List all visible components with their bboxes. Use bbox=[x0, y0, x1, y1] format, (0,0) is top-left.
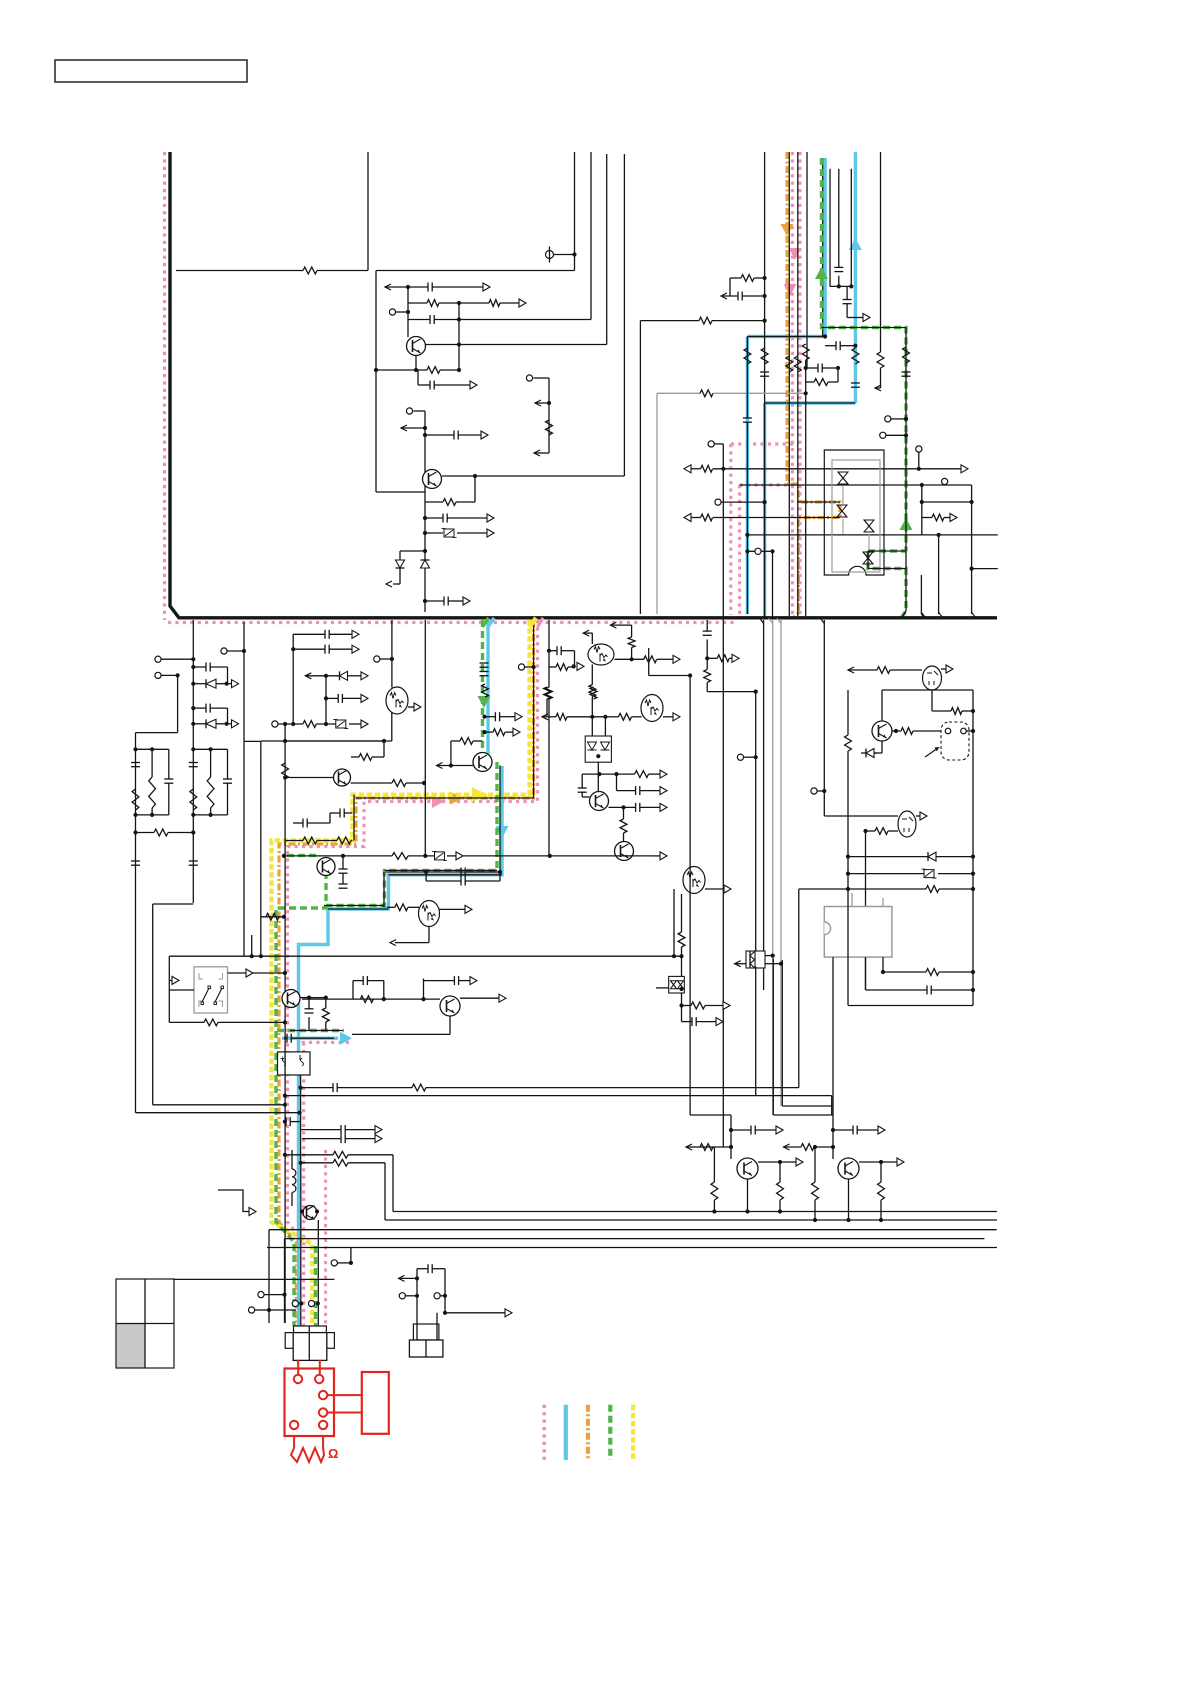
long row y485 bbox=[740, 484, 972, 486]
opto oval 2 bbox=[823, 791, 825, 816]
signal path blue lower branch bbox=[282, 1036, 338, 1039]
gray vertical x772 bbox=[772, 620, 774, 1115]
cap on blue branch y1038 bbox=[284, 1037, 287, 1039]
cap rows near Q7 bbox=[339, 809, 341, 818]
row y1021 bbox=[682, 1021, 693, 1023]
dtr Q6 center bbox=[386, 687, 408, 714]
signal path pink jog B bbox=[740, 483, 791, 486]
varistor row y873 bbox=[848, 873, 924, 875]
right loop top bbox=[882, 689, 973, 691]
red box bbox=[285, 1369, 335, 1437]
cell1 transistor Q13 bbox=[737, 1158, 758, 1179]
long vertical x285 bbox=[284, 724, 286, 1022]
signal path orange center route bbox=[279, 620, 534, 1326]
row resistor R row2 bbox=[408, 302, 427, 304]
long line y1220 bbox=[385, 1219, 997, 1221]
row y551 terminals bbox=[745, 549, 749, 553]
signal path pink center route bbox=[288, 620, 538, 1242]
resistor row y972 bbox=[883, 971, 926, 973]
left RC cluster 2 bbox=[193, 748, 227, 750]
x592 resistor chain bbox=[591, 664, 593, 684]
black diag x906 bbox=[902, 611, 906, 617]
bottom row y1005 bbox=[848, 1005, 973, 1007]
IC bottom wiring bbox=[832, 957, 834, 1130]
row capacitor row4 bbox=[408, 319, 430, 321]
surge block outline bbox=[824, 450, 884, 575]
green Z black wires bbox=[868, 550, 906, 552]
wire y889 left bbox=[799, 888, 848, 890]
small diode box B2 bbox=[669, 976, 685, 993]
cap row y990 bbox=[866, 989, 928, 991]
resistor v906 on green bbox=[905, 328, 907, 612]
ladder row diode y723 bbox=[191, 722, 195, 726]
surge bowtie 2 bbox=[837, 505, 847, 517]
wire blue row y403 bbox=[765, 402, 856, 404]
signal path pink top-right pair bbox=[791, 152, 794, 617]
legend yellow sample bbox=[631, 1405, 635, 1460]
relay left wires bbox=[168, 956, 170, 1022]
transistor Q12 bbox=[872, 721, 892, 741]
vertical x707 chain bbox=[706, 620, 708, 631]
legend green sample bbox=[608, 1405, 612, 1460]
row capacitor y435 bbox=[425, 434, 454, 436]
terminal x882 bbox=[880, 432, 886, 438]
line L1 y320 bbox=[639, 321, 641, 614]
opto oval 1 bbox=[923, 666, 942, 690]
row capacitor y385 bbox=[417, 370, 419, 385]
terminal row3 bbox=[389, 309, 395, 315]
terminal x740 bbox=[737, 754, 743, 760]
wire vertical x830 bbox=[829, 169, 831, 287]
wire vertical x880 bbox=[880, 152, 882, 352]
cell2 resistors bbox=[814, 1147, 816, 1182]
wire vertical x368 bbox=[367, 152, 369, 271]
bundle transistor Q11 bbox=[303, 1206, 317, 1220]
terminal x887 bbox=[885, 416, 891, 422]
oval dtr x429 bbox=[387, 906, 395, 908]
vertical x177 bbox=[177, 675, 179, 732]
vertical x971 to bus bbox=[971, 485, 973, 614]
main thick bus line bbox=[170, 152, 997, 618]
signal path pink lower branch bbox=[302, 1041, 350, 1044]
bus corner diagonals below bbox=[760, 618, 764, 623]
row y517 left bbox=[684, 514, 691, 522]
wire vertical x591 bbox=[590, 152, 592, 320]
signal path pink right pair bottom bbox=[324, 1150, 327, 1326]
dtr Q5 bbox=[683, 867, 705, 894]
svg-text:Ω: Ω bbox=[328, 1446, 338, 1461]
terminals on bundle bbox=[292, 1300, 298, 1306]
Q5 left leg bbox=[673, 889, 675, 956]
resistor v747 bbox=[744, 348, 751, 364]
colored bus entry diagonals bbox=[530, 618, 537, 627]
wire vertical x459 bbox=[458, 303, 460, 370]
resistor x623 bbox=[623, 807, 625, 819]
relay box bbox=[194, 967, 228, 1013]
cell2 transistor Q14 bbox=[838, 1158, 859, 1179]
capacitor row y368 bbox=[806, 367, 818, 369]
transistor Q4 bbox=[615, 842, 634, 861]
relay coil resistor bbox=[169, 1021, 204, 1023]
IC box bbox=[824, 907, 892, 958]
row resistor y502 bbox=[425, 501, 443, 503]
cell2 feed bbox=[772, 959, 774, 1116]
wire table to bundle y1279 bbox=[174, 1278, 334, 1280]
row y1005 bbox=[679, 1003, 683, 1007]
row y502 right bbox=[922, 501, 972, 503]
relay contacts bbox=[202, 988, 209, 1002]
row y716 green branch bbox=[482, 715, 486, 719]
capacitor y345 row bbox=[825, 345, 836, 347]
resistor v855 bbox=[852, 348, 859, 364]
chain x631 bbox=[631, 625, 633, 637]
connector CN2 bbox=[413, 1324, 439, 1340]
diode row y856 bbox=[848, 856, 928, 858]
transistor Q15 cluster bbox=[302, 998, 440, 1000]
bundle black wire x300 bbox=[300, 1075, 302, 1163]
arrow into bundle bbox=[218, 1190, 249, 1212]
signal path orange top-right bbox=[787, 152, 840, 618]
row y716 long bbox=[542, 714, 548, 720]
resistor row y831 bbox=[866, 830, 876, 832]
row y790 bbox=[616, 774, 618, 791]
wires above CN1 bbox=[300, 1163, 302, 1326]
wire blue row y336 bbox=[747, 336, 825, 338]
caps hanging at x343 bbox=[342, 856, 344, 869]
wire vertical x606 bbox=[606, 154, 608, 345]
red terminals bbox=[294, 1375, 302, 1383]
transistor Q3 bbox=[597, 762, 599, 791]
ladder row diode y683 bbox=[191, 682, 195, 686]
long line y1211 bbox=[393, 1211, 997, 1213]
resistor v848 bbox=[847, 690, 849, 735]
wire emitter Q1 bbox=[415, 356, 417, 371]
long row y855.9 bbox=[284, 855, 392, 857]
vertical x755 lower bbox=[755, 967, 757, 1096]
bundle transistor Q10 bbox=[284, 1022, 286, 1323]
row y724 terminal resistor varistor bbox=[272, 721, 278, 727]
cell2 cap row bbox=[833, 1129, 853, 1131]
wire vertical x624 bbox=[623, 154, 625, 476]
CN2 circuit bbox=[416, 1269, 418, 1340]
long line y1095 bbox=[285, 1095, 832, 1097]
long row y468 bbox=[684, 465, 691, 473]
wire green branch y1030 bbox=[290, 1030, 343, 1032]
Q5 resistor leg bbox=[681, 894, 683, 932]
x549 column bbox=[548, 620, 550, 667]
wire vertical x807 bbox=[806, 152, 808, 368]
coil on bundle bbox=[291, 1150, 293, 1169]
line y956 bbox=[169, 955, 682, 957]
signal path pink border vertical bbox=[163, 152, 166, 620]
vertical x938 to bus bbox=[938, 535, 940, 614]
connector phi bbox=[546, 251, 554, 259]
table grid bbox=[117, 1324, 145, 1368]
vertical x824 below bus bbox=[823, 620, 825, 791]
sensor resistor bbox=[892, 730, 901, 732]
row varistor y533 bbox=[425, 532, 443, 534]
terminal x409 chain bbox=[406, 408, 412, 414]
opto block gray outline bbox=[832, 460, 880, 572]
red wires from connector bbox=[297, 1360, 299, 1376]
cell1 resistor row bbox=[686, 1144, 692, 1150]
small diode box B1 bbox=[746, 951, 765, 968]
transistor Q8 on bundle bbox=[317, 858, 335, 876]
row y517 resistor bbox=[922, 517, 932, 519]
wire green row y327 bbox=[822, 327, 907, 329]
terminal chain right x549 bbox=[526, 375, 532, 381]
relay output wire bbox=[228, 972, 247, 974]
transformer box on bundle bbox=[278, 1052, 311, 1075]
long row y534 bbox=[747, 534, 997, 536]
sensor row arrows bbox=[848, 667, 854, 673]
diode below Q12 bbox=[881, 741, 883, 753]
signal path pink jog A bbox=[731, 442, 799, 445]
row capacitor C row1 bbox=[385, 284, 391, 290]
resistor row y382 bbox=[806, 381, 814, 383]
terminals bottom left bbox=[258, 1292, 264, 1298]
row y568 right bbox=[972, 568, 998, 570]
wire vertical x838 bbox=[838, 169, 840, 268]
long line y1238 bbox=[286, 1238, 984, 1240]
wire vertical x789 (pink pair core A) bbox=[788, 152, 790, 617]
surge bowtie 4 bbox=[863, 552, 873, 564]
row y807 bbox=[609, 806, 636, 808]
row diode y675 bbox=[305, 673, 311, 679]
resistor v764 bbox=[761, 348, 768, 364]
wire top-left horizontal bbox=[176, 270, 303, 272]
left RC cluster 1 bbox=[135, 733, 137, 1113]
wire black core x822 bbox=[822, 158, 824, 337]
title box bbox=[55, 60, 247, 82]
signal path pink border horizontal bbox=[168, 621, 737, 624]
vertical x723 long bbox=[722, 469, 724, 1147]
wire corner x376-425 bbox=[376, 491, 425, 493]
transistor Q1 top bbox=[407, 337, 426, 356]
yellow core wires bbox=[533, 620, 535, 798]
legend blue sample bbox=[564, 1405, 568, 1460]
orange row y502 wire bbox=[799, 501, 841, 503]
row capacitor y698 bbox=[324, 696, 328, 700]
wire vertical x408 bbox=[407, 287, 409, 337]
cell1 resistors bbox=[713, 1147, 715, 1182]
gray vertical x781 bbox=[780, 620, 782, 1106]
resistor pair y1154 y1162 bbox=[285, 1154, 333, 1156]
long line y1104 bbox=[153, 1104, 285, 1106]
terminal x814 bbox=[811, 788, 817, 794]
resistor v795 bbox=[786, 356, 793, 372]
wire collector Q1 bbox=[426, 344, 607, 346]
step x194 to x152 bbox=[153, 903, 194, 905]
sensor arrow bbox=[925, 748, 938, 757]
wire vertical x376 bbox=[375, 271, 377, 493]
resistor row y832 bbox=[133, 830, 137, 834]
signal path yellow center route bbox=[272, 620, 530, 1326]
long line y1087 bbox=[301, 1087, 334, 1089]
surge bowtie 1 bbox=[838, 472, 848, 484]
wire vertical x574 bbox=[574, 152, 576, 271]
rc loop left of x764 bbox=[730, 277, 741, 279]
vertical x194 bbox=[192, 620, 194, 903]
resistor v805 bbox=[805, 360, 807, 368]
wire collector Q2 bbox=[442, 475, 624, 477]
wire vertical x851 bbox=[850, 169, 852, 287]
long line y1112 bbox=[136, 1112, 300, 1114]
resistor y711 bbox=[932, 710, 951, 712]
chain x592 dtr bbox=[583, 630, 589, 636]
row capacitor y601 bbox=[425, 600, 444, 602]
row y774 bbox=[582, 773, 634, 775]
resistor row y916 bbox=[261, 916, 284, 918]
yellow path resistors y840 bbox=[303, 837, 317, 844]
legend orange sample bbox=[586, 1405, 590, 1460]
signal path green top-right bbox=[822, 158, 907, 551]
vertical x424 below bus bbox=[424, 620, 426, 856]
signal path green center route bbox=[481, 620, 484, 754]
terminal x521 yellow bbox=[518, 664, 524, 670]
row capacitor y518 bbox=[425, 517, 443, 519]
long line y1229 bbox=[269, 1229, 997, 1231]
signal path green lower branch bbox=[277, 1029, 344, 1032]
surge bowtie 3 bbox=[864, 520, 874, 532]
ladder row cap y667 bbox=[191, 665, 195, 669]
center rows x293 bbox=[292, 634, 294, 724]
black arrow on pink border end bbox=[610, 622, 616, 628]
wire top-center horizontal bbox=[376, 270, 575, 272]
signal path blue center route bbox=[486, 620, 489, 758]
signal path blue top-right bbox=[854, 152, 857, 403]
vertical x763 long bbox=[763, 620, 765, 990]
row y905 green-blue wires bbox=[324, 905, 385, 907]
red right box bbox=[362, 1372, 389, 1434]
transistor Q2 bbox=[423, 470, 442, 489]
transistor Q9 bbox=[473, 753, 492, 772]
row y732 resistor bbox=[482, 730, 486, 734]
black co-wires y872 y881 bbox=[499, 766, 501, 882]
cell1 cap row bbox=[731, 1129, 751, 1131]
row resistor y370 bbox=[376, 369, 427, 371]
bundle cap y1121 bbox=[285, 1117, 287, 1126]
terminal x334 bbox=[331, 1260, 337, 1266]
wire vertical x797 (pink pair core B) bbox=[797, 152, 799, 617]
row y855 green-blue wires bbox=[385, 869, 498, 871]
long line y1247 bbox=[267, 1247, 997, 1249]
transistor Q7 bbox=[261, 740, 384, 742]
dual diode box bbox=[585, 736, 611, 762]
vertical x921 to bus bbox=[920, 575, 922, 614]
terminal pair top-left bbox=[155, 656, 161, 662]
cell2 resistor row bbox=[784, 1144, 790, 1150]
Q3 base cap bbox=[581, 774, 583, 788]
vertical x244 bbox=[243, 622, 245, 957]
connector CN1 bbox=[294, 1326, 310, 1333]
terminal x376 bbox=[374, 656, 380, 662]
double cap rows y1129 y1138 bbox=[301, 1129, 342, 1131]
wire vertical x764 bbox=[764, 152, 766, 617]
sensor dashed box bbox=[941, 722, 969, 760]
branch v261 bbox=[244, 740, 261, 742]
cell1 feed bbox=[690, 1114, 731, 1116]
vertical x755 bbox=[755, 692, 757, 951]
resistor row y889 bbox=[848, 888, 926, 890]
vertical x251 stub bbox=[251, 935, 253, 956]
gray line L2 y393 bbox=[656, 393, 658, 614]
terminal row y502 bbox=[715, 499, 721, 505]
Q10 right wiring bbox=[300, 997, 309, 999]
caps on green line bbox=[480, 662, 489, 664]
vertical x690 long bbox=[648, 648, 650, 676]
diode pair y560 bbox=[423, 549, 427, 553]
red link wires bbox=[327, 1394, 362, 1396]
red resistor bbox=[293, 1436, 295, 1448]
legend pink sample bbox=[542, 1405, 546, 1460]
resistor rows x547 x593 below green arrow bbox=[544, 687, 551, 699]
ladder row cap y708 bbox=[191, 706, 195, 710]
